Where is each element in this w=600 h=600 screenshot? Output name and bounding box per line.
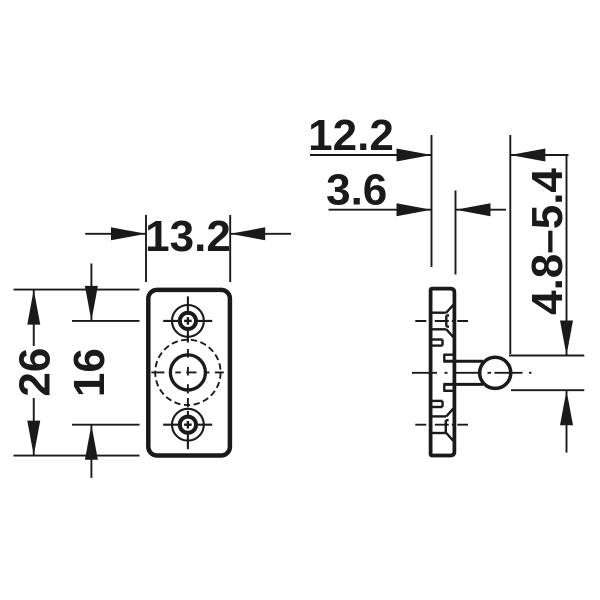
ball top extension line [509,355,584,357]
dimension 16 bottom extension line [72,424,140,426]
dimension 13.2 right leader line [230,233,291,235]
dimension 3.6 right leader line [456,209,507,211]
dimension 12.2 left extension line [431,135,433,267]
top screw hole center plus horizontal [184,320,192,322]
dimension 16 top extension line [72,320,140,322]
side view upper hole countersink top diagonal [446,305,453,313]
top screw hole horizontal crosshair [163,320,212,322]
side view upper hole small bore top stub [446,314,449,316]
bottom screw hole vertical crosshair [187,411,189,449]
top screw hole bore window [182,315,194,327]
side view lower left notch vertical [441,401,443,407]
side view upper left notch vertical [441,340,443,346]
dimension 26 line upper segment [33,290,35,346]
dimension 3.6 right extension line [455,191,457,275]
dimension 12.2 left arrowhead [397,149,432,162]
dimension 16 upper leader line [90,264,92,321]
dimension 3.6 leader line [329,209,432,211]
dimension 16 upper arrowhead [85,286,98,321]
side view upper left notch bottom [433,344,443,346]
top screw hole center plus vertical [187,317,189,325]
side view upper hole bore bottom line [433,328,447,330]
dimension 12.2 leader line [310,154,432,156]
dimension 12.2 right arrowhead [510,149,545,162]
side view upper hole bore top line [433,312,447,314]
top screw hole outer circle [172,305,204,337]
side view upper hole small bore bottom stub [446,325,449,327]
bottom screw hole horizontal crosshair [163,424,212,426]
dimension 26 top arrowhead [27,290,40,325]
center hole horizontal centerline [151,371,223,373]
dimension 16 lower arrowhead [85,425,98,460]
side view lower hole small bore top stub [446,419,449,421]
front view plate outline [148,290,230,456]
dimension 13.2 left arrowhead [111,227,146,240]
bottom screw hole center plus vertical [187,421,189,429]
dimension 3.6 right arrowhead [456,203,491,216]
side view lower left notch top [433,400,443,402]
side view upper left notch top [433,338,443,340]
side view lower hole small bore vertical [445,420,447,433]
dimension 16 lower leader line [90,425,92,478]
side view lower left notch bottom [433,406,443,408]
bottom screw hole outer circle [172,409,204,441]
svg-text:4.8–5.4: 4.8–5.4 [523,168,572,315]
top screw hole vertical crosshair [187,296,189,342]
dimension 4.8-5.4 lower leader line [566,390,568,452]
center dashed pitch circle [155,340,220,405]
side view lower hole countersink top diagonal [446,408,453,416]
side view plate outline [431,289,455,456]
side view lower hole centerline [415,424,468,426]
dimension 26 top extension line [14,289,140,291]
svg-text:13.2: 13.2 [145,212,231,261]
ball bottom extension line [511,389,584,391]
side view upper hole centerline [415,320,468,322]
dimension 3.6 left arrowhead [397,203,432,216]
side view lower hole bore top line [433,415,447,417]
svg-text:16: 16 [65,348,114,397]
stud neck top line [443,360,483,363]
side view lower hole bore bottom line [433,432,447,434]
stud horizontal centerline [412,372,532,374]
dimension 26 line lower segment [33,398,35,456]
side view center hole lower shoulder [443,390,453,392]
stud neck bottom line [443,383,483,386]
dimension 13.2 left extension line [145,215,147,282]
dimension 12.2 right extension line [509,135,511,354]
svg-text:12.2: 12.2 [308,111,394,160]
dimension 4.8-5.4 upper arrowhead [560,321,573,356]
svg-text:3.6: 3.6 [326,166,387,215]
center hole vertical centerline [187,349,189,407]
center hole thick circle [170,355,205,390]
dimension 26 bottom extension line [14,455,140,457]
side view center hole upper shoulder [443,354,453,356]
dimension 4.8-5.4 line [566,155,568,355]
dimension 26 bottom arrowhead [27,421,40,456]
side view upper hole small bore vertical [445,315,447,326]
dimension 12.2 right leader line [510,154,568,156]
side view upper hole countersink bottom diagonal [446,329,453,337]
bottom screw hole countersink ring [180,417,196,433]
bottom screw hole center plus horizontal [184,424,192,426]
bottom screw hole bore window [182,419,194,431]
svg-text:26: 26 [10,348,59,397]
dimension 13.2 right extension line [229,215,231,282]
dimension 13.2 left leader line [85,233,146,235]
ball stud sphere [480,357,511,388]
side view lower hole countersink bottom diagonal [446,433,453,441]
side view center hole lower shoulder vertical [443,384,445,390]
side view center hole upper shoulder vertical [443,355,445,362]
dimension 13.2 right arrowhead [230,227,265,240]
dimension 4.8-5.4 lower arrowhead [560,390,573,425]
top screw hole countersink ring [180,313,196,329]
